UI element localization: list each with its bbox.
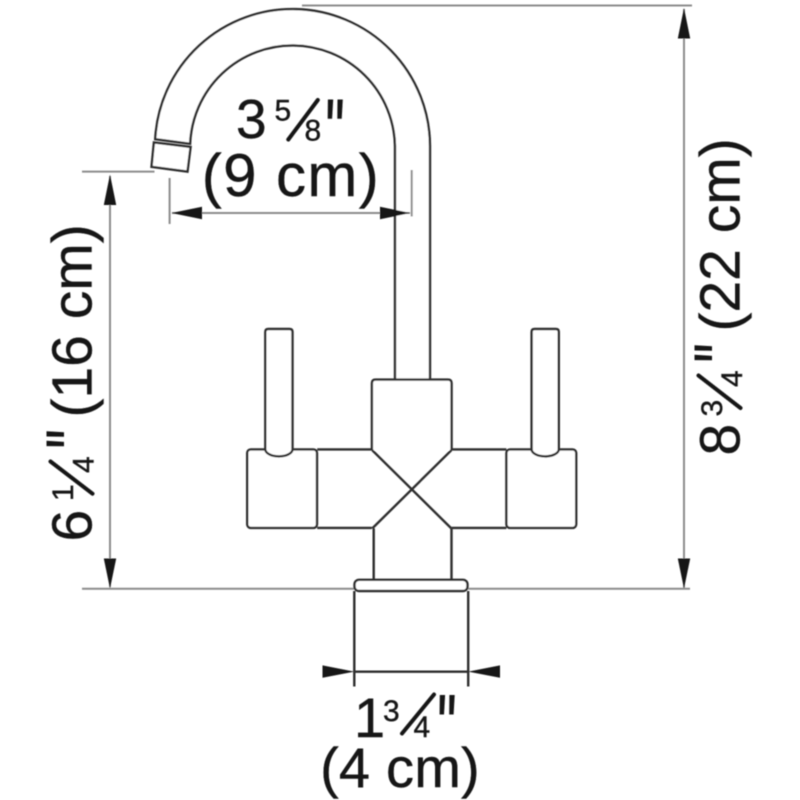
svg-text:(9 cm): (9 cm)	[202, 142, 380, 209]
svg-text:3: 3	[383, 695, 400, 728]
svg-text:1: 1	[47, 484, 80, 501]
svg-text:4: 4	[716, 370, 749, 387]
svg-text:3: 3	[696, 400, 729, 417]
svg-text:8: 8	[689, 424, 753, 456]
svg-text:(16 cm): (16 cm)	[41, 224, 105, 417]
svg-text:(4 cm): (4 cm)	[320, 736, 480, 799]
svg-text:4: 4	[68, 456, 101, 473]
svg-text:(22 cm): (22 cm)	[689, 138, 753, 331]
svg-text:6: 6	[41, 510, 105, 542]
svg-text:5: 5	[275, 95, 292, 128]
svg-text:3: 3	[236, 88, 267, 150]
